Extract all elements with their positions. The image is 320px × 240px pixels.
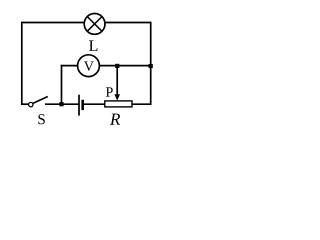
wire: bottom wire, switch to battery: [45, 103, 79, 105]
lamp X1 circle: [84, 14, 105, 35]
label L (lamp): [89, 40, 97, 50]
wire: bottom wire, rheostat to right vertical: [132, 103, 151, 105]
voltmeter U1 circle: [78, 55, 100, 77]
label R (rheostat): [110, 114, 120, 125]
wire: bottom wire, left vertical to switch pivot: [21, 103, 30, 105]
lamp X1 cross stroke 2: [87, 17, 102, 32]
rheostat R slider arrowhead P: [114, 94, 120, 100]
node: junction dot at slider branch: [115, 64, 119, 68]
wire: top wire left segment: [21, 22, 85, 24]
battery BT1 short plate (negative): [81, 100, 84, 110]
node: junction dot on bottom wire (voltmeter branch): [59, 102, 63, 106]
voltmeter U1 left lead: [61, 65, 78, 67]
label P (slider): [106, 87, 113, 96]
wire: bottom wire, battery to rheostat: [84, 103, 105, 105]
label S (switch): [38, 114, 44, 124]
wire: top wire right segment: [105, 22, 152, 24]
switch S blade: [33, 97, 48, 104]
switch S pivot terminal: [29, 102, 33, 106]
wire: right vertical: [150, 22, 152, 105]
voltmeter U1 letter V: [84, 62, 94, 71]
wire: left vertical: [21, 22, 23, 105]
node: junction dot at right vertical: [149, 64, 153, 68]
lamp X1 cross stroke 1: [87, 17, 102, 32]
rheostat R body: [105, 101, 132, 107]
rheostat R slider wire: [116, 66, 118, 96]
voltmeter U1 right lead: [100, 65, 152, 67]
wire: voltmeter left branch vertical: [61, 65, 63, 104]
battery BT1 long plate (positive): [78, 95, 80, 116]
